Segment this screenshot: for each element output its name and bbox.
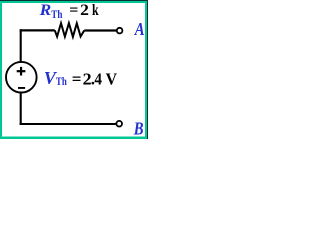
voltage source V_Th circle <box>6 62 37 93</box>
wire resistor to terminal A <box>84 29 116 31</box>
label V_Th <box>44 68 67 88</box>
svg-text:B: B <box>133 118 144 138</box>
svg-text:k: k <box>92 2 99 19</box>
minus sign <box>18 87 25 89</box>
svg-text:2: 2 <box>80 2 89 19</box>
svg-text:=: = <box>69 2 78 19</box>
wire top horizontal <box>20 29 55 31</box>
terminal B circle <box>116 121 122 127</box>
plus sign <box>17 67 26 76</box>
svg-text:4: 4 <box>94 70 102 89</box>
wire bottom horizontal <box>20 123 116 125</box>
label = 2.4 V <box>72 70 118 89</box>
svg-text:=: = <box>72 70 82 89</box>
svg-text:V: V <box>106 70 118 89</box>
resistor R_Th zigzag <box>55 23 85 37</box>
svg-text:R: R <box>39 2 52 19</box>
label = 2 k <box>69 2 98 19</box>
terminal A circle <box>117 28 123 34</box>
wire source bottom vertical <box>20 93 22 126</box>
frame border teal <box>0 0 148 139</box>
label R_Th <box>39 2 63 21</box>
svg-text:Th: Th <box>51 7 62 21</box>
svg-text:Th: Th <box>56 74 67 88</box>
wire top-left vertical <box>20 29 22 62</box>
svg-text:A: A <box>134 19 145 39</box>
